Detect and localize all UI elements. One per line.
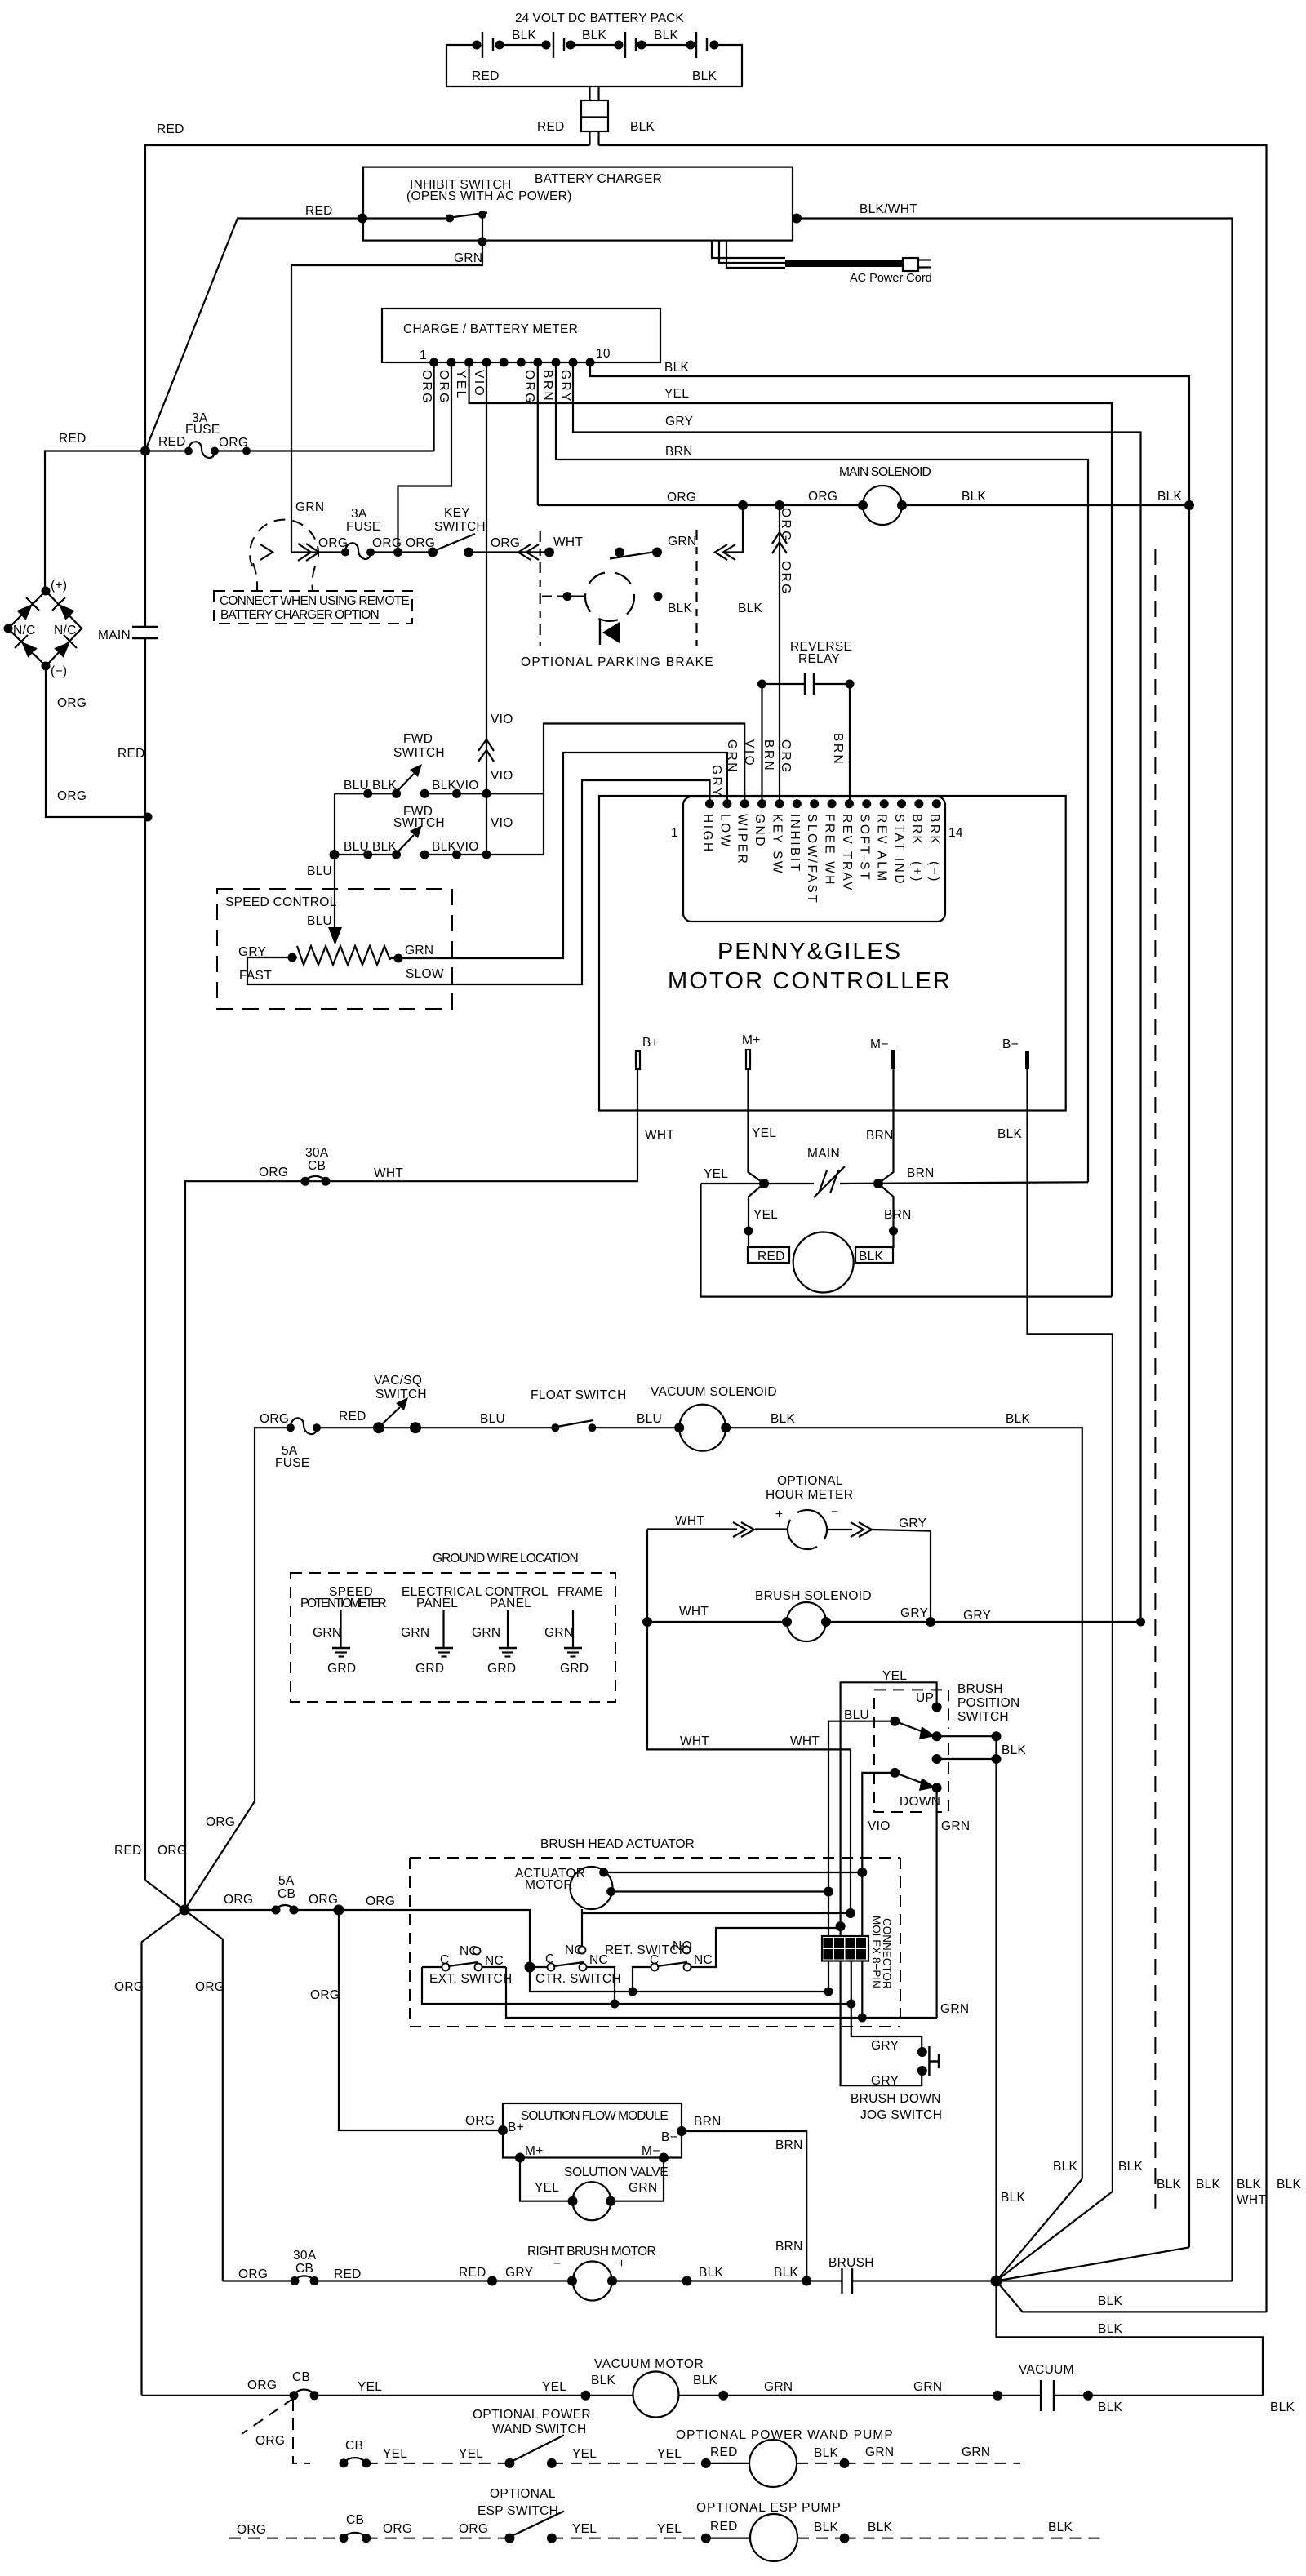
FWD switch row1 (335, 724, 744, 805)
main motor terminals (748, 1247, 789, 1263)
dashed wire (366, 2538, 509, 2539)
wire left part (142, 2395, 295, 2396)
svg-text:CTR. SWITCH: CTR. SWITCH (535, 1972, 621, 1986)
wire ORG down to solution module (339, 1910, 503, 2130)
svg-text:FLOAT SWITCH: FLOAT SWITCH (531, 1388, 627, 1402)
svg-text:PANEL: PANEL (416, 1597, 458, 1610)
svg-text:BRN: BRN (540, 370, 554, 402)
wire molex pin7 down (851, 1961, 922, 2053)
svg-text:GRN: GRN (472, 1626, 500, 1640)
svg-text:BLK: BLK (668, 602, 693, 615)
dashed arc connector (250, 520, 318, 566)
wire valve right (611, 2158, 664, 2201)
wire pin4 VIO down (486, 362, 487, 855)
svg-text:GRN: GRN (544, 1626, 573, 1640)
diode D3 (21, 642, 38, 658)
svg-text:RED: RED (710, 2520, 738, 2534)
FWD switch row2 (335, 793, 544, 927)
dashed box brush head actuator (410, 1858, 900, 2027)
svg-text:30A: 30A (293, 2249, 317, 2263)
ground frame (572, 1610, 574, 1648)
svg-text:+: + (618, 2257, 625, 2271)
svg-text:(OPENS WITH AC POWER): (OPENS WITH AC POWER) (406, 189, 572, 203)
speed control dashed box (217, 889, 452, 1009)
terminal M+ (746, 1050, 750, 1069)
svg-text:BRUSH DOWN: BRUSH DOWN (851, 2092, 941, 2106)
svg-text:GRY: GRY (871, 2074, 899, 2088)
svg-text:SPEED CONTROL: SPEED CONTROL (225, 895, 337, 909)
dashed wire (552, 2538, 706, 2539)
svg-text:FUSE: FUSE (346, 520, 381, 534)
svg-text:GRN: GRN (313, 1626, 341, 1640)
wire valve left (520, 2158, 573, 2201)
main solenoid coil (863, 486, 902, 525)
svg-text:GRN: GRN (940, 2002, 969, 2016)
svg-text:BRN: BRN (694, 2115, 722, 2129)
bridge diamond (8, 591, 82, 666)
wire M+ YEL (749, 1069, 765, 1184)
svg-text:WHT: WHT (790, 1734, 820, 1748)
battery connector (581, 100, 608, 131)
svg-text:EXT. SWITCH: EXT. SWITCH (429, 1972, 512, 1986)
vacuum solenoid coil (679, 1405, 726, 1451)
battery cell 4 (686, 41, 695, 50)
wire main contactor line (701, 1182, 1089, 1184)
svg-text:GRN: GRN (962, 2445, 990, 2459)
wire cell links (500, 44, 691, 46)
svg-text:UP: UP (916, 1691, 934, 1705)
wire brake left terminal (542, 595, 563, 597)
diode D4 (54, 642, 70, 658)
svg-text:HIGH: HIGH (700, 814, 714, 854)
circuit breaker CB (290, 2391, 299, 2400)
svg-text:BRUSH: BRUSH (828, 2256, 874, 2270)
svg-text:YEL: YEL (664, 387, 689, 401)
circuit breaker 30A CB (301, 1177, 310, 1186)
wire GRN down (935, 1788, 937, 2018)
svg-text:ORG: ORG (309, 1893, 338, 1907)
wand row CB (340, 2458, 349, 2467)
switch VAC/SQ (373, 1422, 384, 1433)
wire (317, 1427, 555, 1428)
svg-text:GRY: GRY (899, 1517, 926, 1530)
svg-text:ESP SWITCH: ESP SWITCH (478, 2504, 558, 2518)
svg-text:BLK: BLK (859, 1250, 884, 1264)
svg-text:1: 1 (420, 349, 427, 362)
svg-text:GRY: GRY (900, 1606, 928, 1620)
svg-text:BLK: BLK (654, 29, 679, 42)
diode D1 (16, 604, 33, 620)
svg-text:RED: RED (459, 2266, 486, 2280)
svg-text:RED: RED (158, 435, 186, 449)
svg-text:YEL: YEL (572, 2447, 597, 2461)
battery cell 3 (615, 41, 624, 50)
svg-text:BLK: BLK (1048, 2520, 1073, 2534)
svg-text:ORG: ORG (383, 2522, 412, 2536)
parking brake coil dashed circle (585, 572, 634, 621)
wire M- BRN (878, 1069, 894, 1184)
svg-text:BLK: BLK (1098, 2322, 1123, 2336)
ground electrical panel (442, 1610, 444, 1648)
wand switch (504, 2458, 514, 2468)
svg-text:CB: CB (292, 2370, 310, 2384)
svg-text:FAST: FAST (239, 969, 272, 983)
svg-text:SOLUTION VALVE: SOLUTION VALVE (564, 2165, 669, 2179)
svg-text:BLK: BLK (582, 29, 607, 42)
svg-text:GRD: GRD (487, 1662, 516, 1676)
svg-text:2: 2 (837, 1938, 842, 1949)
solution flow module box (503, 2103, 682, 2158)
svg-text:GRN: GRN (764, 2380, 793, 2394)
wire WHT down from solenoid line (647, 1530, 851, 1914)
svg-text:B+: B+ (642, 1036, 659, 1050)
svg-text:OPTIONAL PARKING BRAKE: OPTIONAL PARKING BRAKE (521, 655, 713, 669)
wire YEL loop to meter yel (701, 1184, 1113, 1297)
fuse F3 (287, 1423, 295, 1432)
svg-text:MOTOR: MOTOR (525, 1878, 573, 1892)
svg-text:1: 1 (671, 826, 678, 840)
svg-text:5A: 5A (278, 1874, 295, 1888)
svg-text:GND: GND (753, 814, 766, 848)
svg-text:BLU: BLU (344, 840, 369, 854)
dashed box (214, 591, 412, 624)
svg-text:VIO: VIO (491, 816, 513, 830)
wire B+ WHT (185, 1069, 637, 1910)
svg-text:ORG: ORG (310, 1988, 340, 2002)
wire GRN from charger (291, 242, 482, 553)
battery cell 1 (473, 41, 482, 50)
svg-text:VACUUM: VACUUM (1019, 2363, 1074, 2377)
svg-text:WHT: WHT (374, 1166, 403, 1180)
svg-text:BLK: BLK (1118, 2160, 1144, 2174)
svg-text:CHARGE / BATTERY METER: CHARGE / BATTERY METER (403, 322, 578, 336)
svg-text:BRUSH SOLENOID: BRUSH SOLENOID (755, 1589, 872, 1603)
svg-text:NC: NC (694, 1953, 713, 1967)
svg-text:RED: RED (305, 204, 333, 218)
svg-text:BLK: BLK (1277, 2178, 1302, 2192)
wire diagonals into X junction (145, 1801, 255, 1910)
svg-text:VAC/SQ: VAC/SQ (374, 1374, 422, 1388)
svg-text:BLK: BLK (1237, 2178, 1262, 2192)
wire molex pin4 (861, 1872, 863, 1936)
svg-text:FRAME: FRAME (557, 1585, 603, 1599)
svg-text:ORG: ORG (57, 789, 87, 803)
svg-text:SWITCH: SWITCH (393, 746, 445, 760)
svg-text:BRN: BRN (884, 1208, 912, 1222)
svg-text:WHT: WHT (1237, 2193, 1266, 2207)
svg-text:GRN: GRN (401, 1626, 429, 1640)
svg-text:M+: M+ (525, 2144, 544, 2158)
junction fan (991, 2276, 1002, 2287)
wire motor lead1 (604, 1872, 863, 1873)
svg-text:ORG: ORG (237, 2523, 266, 2537)
svg-text:GRD: GRD (327, 1662, 356, 1676)
svg-text:BLK: BLK (699, 2266, 724, 2280)
svg-text:BLK: BLK (1157, 2178, 1182, 2192)
svg-text:RELAY: RELAY (798, 652, 840, 666)
svg-text:BLK: BLK (868, 2520, 893, 2534)
wire top bus (145, 145, 1267, 2312)
op outer controller box (599, 796, 1066, 1111)
svg-text:BRK: BRK (909, 814, 923, 846)
wire connector to bus (590, 131, 599, 145)
svg-text:CB: CB (278, 1887, 295, 1901)
svg-text:GRY: GRY (709, 765, 723, 798)
svg-text:VIO: VIO (472, 370, 486, 398)
wire GRN corner to fuse (291, 551, 345, 553)
svg-text:BLU: BLU (637, 1412, 662, 1426)
svg-text:ORG: ORG (366, 1894, 395, 1908)
svg-text:6: 6 (837, 1949, 842, 1961)
svg-text:FWD: FWD (403, 732, 433, 746)
svg-text:14: 14 (948, 826, 963, 840)
svg-text:10: 10 (596, 347, 611, 361)
svg-text:BLK: BLK (591, 2374, 616, 2387)
svg-text:5: 5 (825, 1949, 831, 1961)
wire pin2 to molex (839, 1926, 841, 1937)
svg-text:+: + (775, 1508, 783, 1521)
wire molex pin1 (828, 1892, 829, 1937)
svg-text:POTENTIOMETER: POTENTIOMETER (300, 1597, 387, 1610)
wiper arrow (328, 927, 342, 945)
svg-text:BLK: BLK (1196, 2178, 1221, 2192)
svg-text:GRY: GRY (665, 415, 693, 429)
svg-text:HOUR METER: HOUR METER (766, 1488, 853, 1502)
svg-text:RED: RED (334, 2267, 362, 2281)
svg-text:ORG: ORG (260, 1412, 289, 1426)
inhibit switch (358, 214, 367, 224)
solution valve (572, 2182, 611, 2220)
wire relay right to pin9 (849, 684, 851, 804)
svg-text:GRY: GRY (505, 2266, 533, 2280)
svg-text:ORG: ORG (255, 2434, 285, 2448)
svg-text:MAIN SOLENOID: MAIN SOLENOID (839, 465, 931, 479)
switch RET (651, 1964, 659, 1971)
svg-text:MOTOR CONTROLLER: MOTOR CONTROLLER (668, 968, 953, 994)
wire fan to frame BLK (997, 2281, 1267, 2312)
svg-text:GRD: GRD (560, 1662, 589, 1676)
wire ext box (422, 1967, 937, 2018)
parking brake switch (615, 548, 624, 557)
svg-text:BATTERY CHARGER: BATTERY CHARGER (535, 172, 662, 186)
svg-text:(−): (−) (51, 664, 67, 678)
svg-text:LOW: LOW (717, 814, 731, 849)
svg-text:DOWN: DOWN (900, 1795, 940, 1809)
svg-text:GRN: GRN (913, 2380, 942, 2394)
wire ORG to ctr switch (339, 1910, 530, 1967)
wire motor lead2 (611, 1890, 828, 1892)
svg-text:GRY: GRY (871, 2039, 899, 2053)
svg-text:BLU: BLU (307, 864, 332, 878)
svg-text:CONNECTOR: CONNECTOR (881, 1918, 893, 1989)
svg-text:PENNY&GILES: PENNY&GILES (717, 939, 903, 965)
svg-text:ORG: ORG (206, 1815, 235, 1829)
svg-text:BLK: BLK (372, 779, 398, 793)
svg-text:MAIN: MAIN (807, 1147, 840, 1161)
connector chevron single (260, 544, 273, 560)
inner pin connector box (683, 797, 945, 922)
dashed boundary right (695, 530, 697, 646)
wire inhibit feed (145, 219, 362, 451)
svg-text:YEL: YEL (454, 370, 468, 400)
svg-text:ORG: ORG (224, 1893, 253, 1907)
connector chevron right pair (851, 1522, 872, 1537)
svg-text:ORG: ORG (459, 2522, 488, 2536)
svg-text:BRUSH HEAD ACTUATOR: BRUSH HEAD ACTUATOR (540, 1837, 695, 1851)
svg-text:BLU: BLU (844, 1708, 869, 1722)
wire left loop (45, 451, 145, 592)
svg-text:BLU: BLU (480, 1412, 505, 1426)
svg-text:BLK: BLK (372, 840, 398, 854)
wire fuse to meter pin1 (215, 450, 434, 451)
svg-text:RED: RED (472, 69, 500, 83)
AC power cord wires (712, 241, 785, 259)
X junction (180, 1905, 190, 1916)
svg-text:ORG: ORG (779, 508, 793, 543)
svg-text:JOG SWITCH: JOG SWITCH (860, 2108, 942, 2122)
svg-text:M+: M+ (742, 1033, 761, 1047)
wire pin1 ORG down to fuse line (433, 362, 434, 451)
svg-text:B+: B+ (508, 2121, 524, 2134)
svg-text:FUSE: FUSE (275, 1456, 310, 1470)
svg-text:POSITION: POSITION (957, 1696, 1019, 1710)
hour meter dashed circle (797, 1510, 827, 1539)
wire to vacuum motor (314, 2395, 633, 2396)
actuator motor (571, 1867, 613, 1909)
dashed box brush position switch (874, 1690, 948, 1812)
wire to pump (706, 2463, 749, 2464)
svg-text:SWITCH: SWITCH (434, 520, 486, 534)
molex 8-pin connector (822, 1936, 868, 1961)
wire CB to ORG junction (294, 1909, 339, 1911)
svg-text:BRN: BRN (762, 739, 775, 772)
svg-text:RIGHT BRUSH MOTOR: RIGHT BRUSH MOTOR (527, 2245, 656, 2258)
svg-text:BLK: BLK (814, 2520, 839, 2534)
svg-text:(+): (+) (909, 861, 923, 883)
svg-text:PANEL: PANEL (490, 1597, 531, 1610)
wire vacuum motor out (679, 2395, 1264, 2396)
svg-text:YEL: YEL (657, 2522, 682, 2536)
svg-text:(+): (+) (51, 579, 67, 593)
svg-text:BLK: BLK (692, 69, 717, 83)
svg-text:RED: RED (118, 747, 145, 761)
svg-text:YEL: YEL (704, 1167, 728, 1181)
svg-text:FUSE: FUSE (185, 423, 220, 437)
svg-text:BLK: BLK (630, 120, 655, 134)
svg-text:YEL: YEL (535, 2181, 559, 2195)
svg-text:VIO: VIO (868, 1819, 891, 1833)
svg-text:3A: 3A (351, 507, 367, 521)
svg-text:VIO: VIO (456, 779, 479, 793)
wire fan to B- BLK (997, 2192, 1113, 2281)
wire battery loop (446, 45, 742, 87)
svg-text:OPTIONAL ESP PUMP: OPTIONAL ESP PUMP (696, 2501, 841, 2515)
svg-text:BRN: BRN (775, 2139, 803, 2152)
wire pin7 ORG down (537, 362, 539, 505)
svg-text:ORG: ORG (779, 561, 793, 596)
wire left part (223, 2280, 295, 2281)
wire hour meter right (827, 1530, 931, 1622)
wire to connector (590, 87, 599, 100)
dashed ORG diagonal (242, 2398, 294, 2434)
svg-text:STAT IND: STAT IND (892, 814, 906, 886)
svg-text:GRD: GRD (415, 1662, 444, 1676)
svg-text:CB: CB (308, 1159, 326, 1173)
svg-text:WAND SWITCH: WAND SWITCH (492, 2423, 587, 2436)
brake symbol (602, 622, 620, 643)
wire fan to vac solenoid BLK (997, 2179, 1082, 2281)
connector chevron left pair (715, 544, 735, 560)
svg-text:MOLEX 8−PIN: MOLEX 8−PIN (870, 1916, 882, 1988)
svg-text:−: − (553, 2257, 561, 2271)
svg-text:BLK: BLK (432, 779, 457, 793)
wire BLU (828, 1721, 895, 1891)
wire BLK to right (726, 1428, 1082, 2178)
svg-text:M−: M− (870, 1037, 889, 1051)
svg-text:BLK: BLK (1157, 490, 1183, 504)
main motor (793, 1232, 854, 1293)
wire ret links (633, 1928, 841, 1992)
wire pin8 BRN right (556, 362, 1088, 1182)
controller pin dots 1-14 (705, 799, 714, 808)
svg-text:GRY: GRY (963, 1609, 991, 1623)
svg-text:RED: RED (537, 120, 565, 134)
fuse F1 (184, 447, 193, 455)
wire brush solenoid line (647, 1621, 1141, 1623)
wire (592, 1427, 679, 1428)
svg-text:ORG: ORG (779, 739, 793, 775)
svg-text:ORG: ORG (57, 696, 87, 710)
svg-text:ORG: ORG (219, 436, 248, 450)
wire X outputs down (142, 1910, 223, 2395)
svg-text:YEL: YEL (542, 2380, 566, 2394)
contactor MAIN (819, 1170, 827, 1193)
dashed box (291, 1573, 615, 1702)
connector chevron double (298, 544, 319, 561)
svg-text:BLK: BLK (432, 840, 457, 854)
svg-text:BLK: BLK (814, 2446, 839, 2460)
svg-text:BLK: BLK (512, 29, 537, 42)
wire ORG down from solenoid line (723, 505, 743, 553)
svg-text:RED: RED (114, 1844, 142, 1858)
svg-text:WHT: WHT (675, 1514, 704, 1528)
svg-text:ORG: ORG (247, 2378, 277, 2392)
svg-text:WHT: WHT (680, 1734, 709, 1748)
wire X to 5A CB (184, 1909, 276, 1911)
wire bridge minus to bus (46, 666, 148, 817)
wire ORG down to pin5 (779, 505, 780, 804)
svg-text:VIO: VIO (491, 713, 513, 726)
svg-text:YEL: YEL (882, 1669, 907, 1683)
capacitor BRUSH (841, 2268, 842, 2294)
svg-text:BLK: BLK (1006, 1412, 1031, 1426)
svg-text:ORG: ORG (522, 370, 536, 405)
dashed feed down (293, 2400, 310, 2463)
svg-text:ORG: ORG (465, 2114, 495, 2128)
potentiometer R1 zigzag (297, 946, 390, 965)
wire pin2 ORG down-left to key row (398, 362, 452, 553)
svg-text:OPTIONAL: OPTIONAL (777, 1474, 843, 1488)
AC power cord cable (785, 260, 903, 267)
circuit breaker 30A CB (291, 2276, 300, 2285)
svg-text:ORG: ORG (437, 370, 451, 405)
wire pot right SLOW GRN (390, 753, 727, 958)
wire BLK column down (997, 1736, 1264, 2396)
svg-text:WHT: WHT (553, 535, 583, 549)
svg-text:M−: M− (642, 2144, 660, 2158)
svg-text:NC: NC (485, 1954, 504, 1968)
ground speed potentiometer (340, 1610, 341, 1648)
